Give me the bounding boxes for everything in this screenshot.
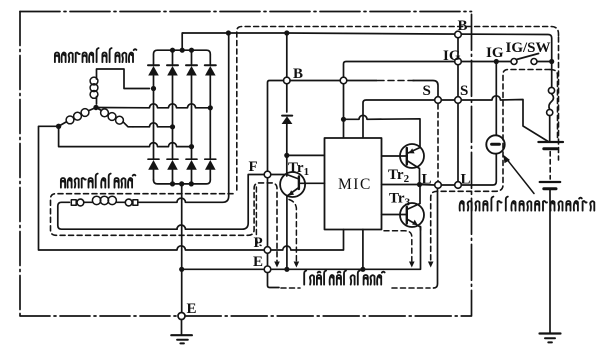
IC regulator box top: solid-dash-solid to S pin: [347, 81, 438, 97]
wire B terminal vertical: [286, 33, 288, 112]
node bus2-col2: [170, 181, 175, 186]
transistor Tr3: [382, 185, 425, 231]
MIC box: [325, 138, 382, 230]
label stator (Thai): [55, 48, 136, 62]
slip ring right: [125, 199, 132, 206]
brush right: [133, 200, 138, 205]
rotor loop left side: [58, 202, 177, 229]
terminal circle S (alternator): [435, 97, 442, 104]
dashed flow arrow Tr1 emitter: [289, 200, 296, 262]
ground battery: [540, 332, 561, 334]
svg-text:E: E: [187, 301, 197, 317]
diode D7: [186, 147, 197, 184]
label rotor (Thai): [61, 174, 135, 188]
diode D6: [167, 127, 178, 184]
diode D1: [148, 65, 159, 88]
wire B riser from bridge: [181, 33, 184, 50]
switch contact left: [511, 59, 517, 65]
terminal circle B (alternator): [284, 77, 291, 84]
wire neutral to col4 (hops over cols 1-3): [96, 104, 210, 108]
wire right phase to col2 (hops col1): [133, 123, 173, 127]
node phase-col2: [170, 124, 175, 129]
terminal circle IG (alternator): [340, 77, 347, 84]
wire left phase to col3 (hops cols 1,2): [59, 126, 192, 146]
wire L from MIC: [382, 184, 420, 186]
terminal circle B (connector): [455, 31, 462, 38]
alternator case chain border left/bottom/right: [19, 12, 21, 317]
wire F terminal: [264, 174, 287, 176]
node E-main: [179, 267, 184, 272]
diode D3: [186, 65, 197, 146]
node Tr1 collector / MIC-B: [284, 153, 289, 158]
stator left winding: [81, 109, 89, 117]
battery: [538, 141, 563, 143]
node bus2-riser: [179, 181, 184, 186]
rotor top wire to F/B vertical (hops ground line): [138, 33, 229, 202]
node bus-col3: [189, 48, 194, 53]
stator right winding: [101, 109, 109, 117]
dashed flow arrow near E: [274, 262, 280, 268]
rectifier bottom bus: [154, 180, 211, 184]
wire L between circles: [441, 184, 454, 186]
wire phase1 top to bridge col1: [97, 69, 150, 89]
terminal circle E (case): [178, 313, 185, 320]
node B-rotor riser: [226, 30, 231, 35]
terminal circle P: [264, 247, 271, 254]
wire battery feed with fusible link: [551, 62, 553, 88]
node B-switch: [549, 59, 554, 64]
diode D8: [205, 108, 216, 180]
harness dashed boundary (right edge): [558, 37, 560, 160]
svg-text:IG: IG: [443, 48, 461, 64]
brush left: [71, 200, 76, 205]
rotor dashed enclosure: [51, 183, 278, 261]
switch blade: [517, 54, 539, 60]
wire IG to Tr2 emitter (hops S riser): [344, 115, 421, 147]
svg-text:MIC: MIC: [338, 176, 372, 193]
wire S line to lamp crossing (hop) then battery: [441, 96, 549, 142]
svg-text:E: E: [253, 254, 263, 270]
wire L-net down to regulator box corner: [434, 188, 438, 288]
harness dashed boundary (top): [237, 27, 559, 191]
arrow pointing to lamp: [506, 158, 535, 194]
terminal circle L (alternator): [435, 182, 442, 189]
stator coil phase1 vertical winding: [90, 77, 98, 85]
node E-Tr1: [284, 267, 289, 272]
node bus2-col3: [189, 181, 194, 186]
transistor Tr1: [280, 172, 324, 269]
node phase-col3: [189, 144, 194, 149]
rotor coil: [92, 196, 100, 204]
wire B-IG link top of regulator: [290, 80, 340, 82]
wire MIC B input: [287, 154, 325, 156]
svg-text:S: S: [423, 83, 431, 99]
svg-text:B: B: [457, 18, 467, 34]
wire Tr1 collector: [286, 155, 288, 176]
dashed flow arrow MIC bottom right: [384, 231, 412, 261]
terminal circle IG (connector): [455, 58, 462, 65]
wire P tap from left phase: [39, 126, 265, 250]
charge lamp: [486, 135, 504, 153]
wire IG line right of connector: [461, 61, 496, 63]
node neutral-col4: [208, 105, 213, 110]
connector pin column (B-IG-S-L): [457, 38, 459, 182]
terminal circle L (connector): [455, 182, 462, 189]
battery internal dashed link: [549, 152, 551, 180]
svg-text:IG/SW: IG/SW: [506, 40, 551, 56]
switch wire to contacts: [496, 61, 551, 63]
dashed inner boundary right (to battery): [550, 70, 558, 140]
ground E terminal: [181, 320, 183, 336]
terminal circle S (connector): [455, 97, 462, 104]
switch contact right: [531, 59, 537, 65]
transistor Tr2: [382, 144, 425, 185]
node stator Y center: [93, 105, 98, 110]
IC regulator box left edge through F P E: [268, 81, 284, 288]
wire P to MIC (hops Tr1 emitter): [271, 230, 344, 251]
rectifier top bus: [154, 50, 211, 65]
diode D9 (B line): [282, 115, 292, 117]
wire IG terminal up and to connector: [344, 62, 455, 120]
dashed path P wire follower: [256, 187, 261, 246]
label charge lamp (Thai): [460, 197, 595, 211]
svg-text:L: L: [461, 172, 471, 188]
node E-MIC: [360, 267, 365, 272]
wire S sense from MIC: [363, 100, 435, 138]
svg-text:P: P: [254, 235, 263, 251]
wire MIC E leg: [362, 230, 364, 270]
node bus-riser: [180, 48, 185, 53]
svg-text:L: L: [422, 172, 432, 188]
fusible link connector: [548, 87, 554, 93]
wire MIC IG input: [343, 119, 345, 138]
node bus-col2: [170, 48, 175, 53]
svg-text:B: B: [293, 66, 303, 82]
wire main ground vertical: [181, 184, 183, 316]
svg-text:F: F: [249, 159, 258, 175]
wire B bus along top: [183, 32, 228, 34]
svg-text:IG: IG: [486, 45, 504, 61]
wire E bus: [182, 227, 421, 270]
wire lamp bottom to L: [461, 154, 496, 185]
diode D5: [148, 89, 159, 181]
svg-text:S: S: [460, 83, 468, 99]
node IG-lamp: [494, 59, 499, 64]
rotor bottom wire (hops ground line): [177, 175, 264, 230]
slip ring left: [77, 199, 84, 206]
node L junction: [417, 182, 422, 187]
diode D2: [167, 65, 178, 127]
label IC regulator (Thai): [304, 271, 384, 285]
terminal circle F: [264, 171, 271, 178]
IC regulator dashed box right (connector col between S and L): [437, 104, 439, 181]
wire lamp top feed: [495, 62, 497, 136]
node B-terminal riser: [284, 30, 289, 35]
node IG-MIC: [341, 117, 346, 122]
terminal circle E: [264, 266, 271, 273]
diode D4: [205, 65, 216, 108]
dashed path from IG/SW area down to E with arrow: [431, 70, 550, 262]
node stator left end: [56, 124, 61, 129]
node phase1-col1: [151, 86, 156, 91]
IC regulator dashed box bottom: [281, 287, 430, 289]
